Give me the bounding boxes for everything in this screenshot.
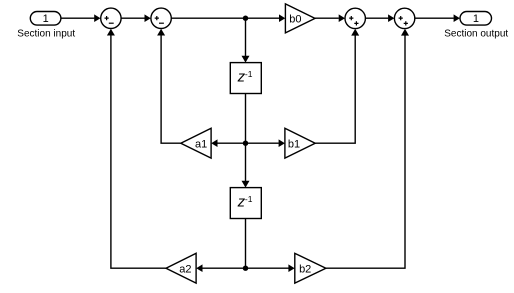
gain b0 [285,4,315,33]
sum Sum3 (+,+) [345,8,365,28]
svg-text:Section input: Section input [17,28,75,39]
svg-text:b1: b1 [288,138,300,150]
gain a2 (left-pointing) [166,253,196,283]
svg-text:a1: a1 [195,138,207,150]
node: bottom junction [243,266,248,271]
wire: Sum3 to Sum4 [365,14,394,22]
wire: a1 to Sum2 bottom [157,29,181,144]
node: middle junction [243,141,248,146]
svg-text:-1: -1 [245,69,253,79]
svg-text:1: 1 [473,13,479,25]
wire: bottom junction to gain b2 [246,264,295,272]
wire: Sum1 to Sum2 [121,14,151,22]
sum Sum2 (+,-) [151,8,171,28]
delay Delay2 z^-1 [230,188,261,219]
wire: b1 to Sum3 bottom [315,29,359,143]
gain a1 (left-pointing) [181,128,211,158]
svg-text:b0: b0 [289,13,301,25]
wire: bottom junction to gain a2 [196,264,245,272]
wire: middle junction to gain a1 [211,139,245,147]
delay Delay1 z^-1 [230,63,261,94]
wire: Delay1 down to middle junction [245,94,247,144]
wire: top junction down to Delay1 [242,18,250,62]
wire: input port to Sum1 [61,14,101,22]
svg-text:-1: -1 [245,194,253,204]
gain b2 [295,253,326,283]
wire: b0 to Sum3 [315,14,345,22]
svg-text:a2: a2 [179,263,191,275]
svg-text:b2: b2 [299,263,311,275]
wire: middle junction to gain b1 [246,139,285,147]
svg-text:Section output: Section output [444,28,508,39]
wire: a2 to Sum1 bottom [107,29,166,269]
wire: Delay2 down to bottom junction [245,219,247,269]
node: top junction [243,16,248,21]
wire: Sum4 to output port [415,14,460,22]
sum Sum4 (+,+) [394,8,414,28]
gain b1 [285,128,315,158]
wire: Sum2 to gain b0 [171,14,285,22]
wire: b2 to Sum4 bottom [326,29,409,268]
input port 1 (Section input) [30,12,61,26]
sum Sum1 (+,-) [101,8,121,28]
svg-text:1: 1 [43,13,49,25]
output port 1 (Section output) [460,12,492,26]
wire: middle junction down to Delay2 [242,143,250,187]
